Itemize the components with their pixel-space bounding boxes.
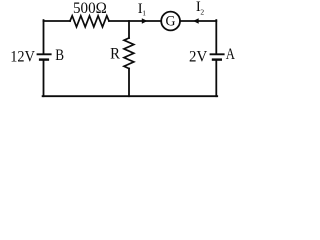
battery A bottom plate (short thick) bbox=[212, 58, 222, 60]
svg-text:G: G bbox=[166, 14, 176, 30]
svg-text:12V: 12V bbox=[10, 48, 35, 65]
wire top-left horizontal bbox=[44, 20, 71, 22]
current arrow I2 (points left) bbox=[193, 18, 199, 24]
wire middle branch upper bbox=[128, 21, 130, 38]
svg-text:B: B bbox=[55, 47, 64, 64]
galvanometer G circle bbox=[161, 12, 180, 31]
current arrow I1 (points right) bbox=[142, 18, 148, 24]
wire left vertical lower bbox=[43, 61, 45, 96]
wire right vertical upper bbox=[215, 20, 217, 53]
wire top-middle (resistor to galvanometer) bbox=[109, 20, 161, 22]
battery B top plate (long) bbox=[37, 53, 52, 55]
wire top-right (galvanometer to right corner) bbox=[180, 20, 216, 22]
resistor 500 ohm zigzag bbox=[70, 16, 109, 27]
svg-text:1: 1 bbox=[142, 8, 146, 17]
wire middle branch lower bbox=[128, 69, 130, 97]
wire right vertical lower bbox=[215, 61, 217, 96]
battery A top plate (long) bbox=[210, 53, 225, 55]
svg-text:2: 2 bbox=[200, 7, 204, 16]
svg-text:500Ω: 500Ω bbox=[73, 0, 107, 17]
svg-text:A: A bbox=[226, 46, 236, 63]
svg-text:2V: 2V bbox=[189, 48, 208, 65]
svg-text:R: R bbox=[110, 46, 120, 63]
wire bottom horizontal bbox=[43, 95, 218, 97]
resistor R zigzag bbox=[124, 38, 134, 69]
wire left vertical upper bbox=[43, 20, 45, 53]
battery B bottom plate (short thick) bbox=[39, 58, 49, 60]
